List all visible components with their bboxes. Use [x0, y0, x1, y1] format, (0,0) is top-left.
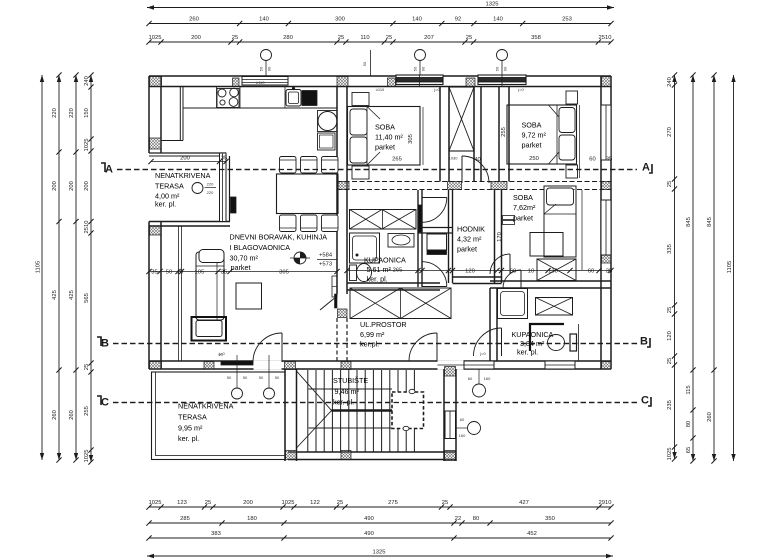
svg-text:120: 120 — [465, 269, 475, 275]
svg-text:90: 90 — [267, 66, 272, 71]
svg-text:300: 300 — [335, 17, 345, 23]
svg-text:j=0: j=0 — [218, 351, 225, 356]
svg-text:160: 160 — [459, 433, 466, 438]
svg-text:255: 255 — [501, 127, 507, 137]
svg-text:200: 200 — [191, 35, 201, 41]
svg-text:220: 220 — [207, 182, 214, 187]
svg-text:A: A — [105, 164, 113, 176]
svg-text:425: 425 — [52, 290, 58, 300]
svg-text:50: 50 — [259, 375, 264, 380]
right dims 845/260 — [713, 75, 715, 461]
bath2 shower — [498, 289, 528, 319]
left exterior wall lower — [148, 222, 150, 370]
right exterior wall — [600, 76, 602, 369]
ulprostor closet — [350, 288, 451, 319]
left dims 220/200/425/260 — [58, 75, 60, 460]
svg-text:90: 90 — [421, 66, 426, 71]
svg-text:25: 25 — [667, 181, 673, 187]
interior dimension line — [149, 271, 337, 273]
vent shaft — [449, 87, 474, 151]
svg-text:285: 285 — [180, 516, 190, 522]
bath2 toilet — [530, 324, 564, 351]
svg-text:parket: parket — [522, 141, 542, 150]
wall hodnik left — [448, 190, 450, 283]
terrace 9.95 box — [152, 372, 286, 460]
dining table — [277, 174, 339, 214]
living/ulp wall dashed part — [336, 318, 338, 361]
soba762 bed — [544, 186, 576, 257]
svg-text:35: 35 — [606, 269, 612, 275]
svg-text:C: C — [101, 397, 109, 409]
svg-text:845: 845 — [707, 217, 713, 227]
wall columns bottom — [204, 362, 214, 370]
bottom dims row3 — [149, 537, 611, 539]
svg-text:60: 60 — [468, 376, 473, 381]
svg-text:250: 250 — [529, 156, 539, 162]
sofa — [196, 252, 224, 320]
dashed wall under bedrooms — [337, 181, 611, 183]
svg-text:parket: parket — [231, 263, 251, 272]
svg-text:50: 50 — [259, 66, 264, 71]
svg-text:60: 60 — [588, 269, 594, 275]
svg-text:200: 200 — [52, 181, 58, 191]
bedroom1 nightstands — [352, 93, 369, 106]
elevation marker — [294, 252, 306, 264]
svg-text:253: 253 — [562, 17, 572, 23]
sink — [286, 90, 301, 107]
terrace 9.95 posts — [232, 388, 243, 399]
svg-text:KUPAONICA: KUPAONICA — [364, 256, 406, 265]
terrace 4.00 inner dim — [151, 161, 226, 163]
svg-text:TERASA: TERASA — [178, 413, 207, 422]
svg-text:11,40 m²: 11,40 m² — [375, 133, 403, 142]
svg-text:j=0: j=0 — [479, 351, 486, 356]
svg-text:220: 220 — [52, 108, 58, 118]
svg-text:j=0: j=0 — [433, 87, 440, 92]
svg-text:I BLAGOVAONICA: I BLAGOVAONICA — [230, 243, 291, 252]
svg-text:255: 255 — [84, 406, 90, 416]
svg-text:160: 160 — [484, 376, 491, 381]
wall niche/bedroom2 — [498, 87, 500, 182]
svg-text:25: 25 — [337, 500, 343, 506]
wall under hodnik — [453, 276, 502, 278]
svg-text:1025: 1025 — [282, 500, 295, 506]
svg-text:80: 80 — [686, 421, 692, 427]
svg-text:35: 35 — [221, 156, 227, 162]
window soba762 right — [601, 200, 611, 255]
svg-text:KUPAONICA: KUPAONICA — [512, 330, 554, 339]
svg-text:7,62m²: 7,62m² — [513, 203, 536, 212]
svg-text:120: 120 — [667, 331, 673, 341]
svg-text:10: 10 — [177, 270, 183, 276]
svg-text:TERASA: TERASA — [155, 182, 184, 191]
svg-text:DNEVNI BORAVAK, KUHINJA: DNEVNI BORAVAK, KUHINJA — [230, 233, 328, 242]
svg-text:240: 240 — [84, 76, 90, 86]
svg-text:50: 50 — [495, 66, 500, 71]
svg-text:565: 565 — [84, 293, 90, 303]
svg-text:9,46 m²: 9,46 m² — [335, 387, 360, 396]
svg-text:50: 50 — [243, 375, 248, 380]
wall shaft/niche — [473, 87, 475, 182]
svg-text:25: 25 — [205, 500, 211, 506]
vestibule top door — [422, 198, 447, 223]
living door leaf — [335, 294, 338, 308]
svg-text:ker. pl.: ker. pl. — [178, 434, 199, 443]
svg-text:1325: 1325 — [373, 550, 386, 556]
soba762 door — [490, 254, 510, 274]
svg-text:25: 25 — [232, 35, 238, 41]
svg-text:≥110: ≥110 — [376, 87, 385, 92]
svg-text:90: 90 — [503, 66, 508, 71]
svg-text:1025: 1025 — [84, 450, 90, 463]
vestibule cabinet — [427, 234, 447, 250]
svg-text:260: 260 — [52, 410, 58, 420]
top dimension line openings — [149, 41, 611, 43]
fridge — [318, 133, 336, 150]
svg-text:275: 275 — [388, 500, 398, 506]
svg-text:SOBA: SOBA — [375, 123, 395, 132]
svg-text:25: 25 — [386, 35, 392, 41]
svg-text:235: 235 — [667, 400, 673, 410]
svg-text:845: 845 — [686, 217, 692, 227]
svg-text:220: 220 — [69, 108, 75, 118]
svg-text:220: 220 — [207, 190, 214, 195]
svg-text:parket: parket — [457, 245, 477, 254]
left exterior wall upper — [148, 76, 150, 153]
plumbing shaft black — [419, 205, 422, 232]
svg-text:425: 425 — [69, 290, 75, 300]
window kitchen top — [242, 77, 288, 86]
svg-text:2510: 2510 — [599, 35, 612, 41]
wall bath2 left — [489, 288, 491, 361]
bath1 washbasin — [388, 234, 414, 248]
staircase mid bar — [309, 388, 393, 390]
svg-text:1030: 1030 — [449, 156, 459, 161]
svg-text:+573: +573 — [319, 262, 332, 268]
piano/cabinet — [192, 317, 227, 341]
svg-text:6,99 m²: 6,99 m² — [360, 330, 385, 339]
svg-text:ker. pl.: ker. pl. — [155, 200, 176, 209]
right dims detailed — [674, 75, 676, 459]
vestibule bottom door — [422, 262, 447, 287]
svg-text:305: 305 — [279, 270, 289, 276]
svg-text:ker. pl.: ker. pl. — [517, 348, 538, 357]
svg-text:25: 25 — [667, 358, 673, 364]
bedroom2 nightstands — [566, 91, 578, 104]
living wall radiator — [332, 276, 337, 297]
bath1 washer closet — [350, 210, 417, 230]
svg-text:122: 122 — [310, 500, 320, 506]
stove — [217, 89, 239, 108]
staircase walls — [284, 369, 286, 461]
section line A-A — [117, 169, 637, 171]
svg-text:1105: 1105 — [727, 261, 733, 273]
svg-text:200: 200 — [84, 181, 90, 191]
svg-text:140: 140 — [493, 17, 503, 23]
svg-text:427: 427 — [519, 500, 529, 506]
svg-text:170: 170 — [497, 232, 503, 242]
svg-text:UL.PROSTOR: UL.PROSTOR — [360, 320, 407, 329]
svg-text:383: 383 — [211, 531, 221, 537]
svg-text:35: 35 — [606, 157, 612, 163]
svg-text:ker. pl.: ker. pl. — [367, 275, 388, 284]
bath1 toilet — [350, 265, 357, 281]
svg-text:200: 200 — [180, 156, 190, 162]
svg-text:2510: 2510 — [84, 221, 90, 234]
wall living/bedroom1 — [336, 87, 338, 295]
bath1 shower — [350, 233, 380, 263]
svg-text:B: B — [101, 338, 109, 350]
top exterior wall — [149, 75, 611, 77]
bath2 door — [503, 270, 521, 288]
svg-text:207: 207 — [424, 35, 434, 41]
terrace 4.00 drain circle — [192, 183, 203, 194]
wall above bath2 — [490, 280, 611, 282]
terrace door dark leaf — [231, 197, 237, 213]
living/ulp wall hatch — [338, 309, 348, 318]
svg-text:30,70 m²: 30,70 m² — [230, 254, 259, 263]
section line C-C — [113, 402, 637, 404]
svg-text:NENATKRIVENA: NENATKRIVENA — [155, 171, 211, 180]
svg-text:25: 25 — [667, 307, 673, 313]
svg-text:1025: 1025 — [84, 139, 90, 152]
svg-text:9,72 m²: 9,72 m² — [522, 131, 547, 140]
kitchen counter top band — [183, 107, 337, 109]
svg-text:92: 92 — [455, 17, 461, 23]
wall bedroom1/shaft — [439, 87, 441, 182]
svg-text:25: 25 — [84, 364, 90, 370]
svg-text:240: 240 — [667, 77, 673, 87]
svg-text:260: 260 — [189, 17, 199, 23]
terrace 4.00 walls — [149, 152, 226, 154]
window bedroom1 top — [396, 75, 443, 85]
window bedroom2 right — [601, 105, 611, 160]
svg-text:150: 150 — [84, 108, 90, 118]
svg-text:1325: 1325 — [486, 2, 499, 8]
svg-text:STUBIŠTE: STUBIŠTE — [333, 376, 368, 385]
yard post 1 — [473, 384, 486, 397]
left dims detailed — [90, 75, 92, 462]
svg-text:1105: 1105 — [36, 261, 42, 273]
soba762 desk — [530, 233, 563, 257]
svg-text:452: 452 — [527, 531, 537, 537]
svg-text:≥110: ≥110 — [256, 80, 265, 85]
wall hodnik/soba762 — [494, 190, 496, 284]
section lines overdraw — [117, 169, 637, 171]
soba762 wardrobe — [537, 259, 576, 281]
svg-text:200: 200 — [69, 181, 75, 191]
svg-text:270: 270 — [667, 127, 673, 137]
wall columns left — [150, 138, 162, 149]
wall bath1 bottom / ulp top — [347, 282, 440, 284]
svg-text:1025: 1025 — [149, 500, 162, 506]
svg-text:280: 280 — [283, 35, 293, 41]
oven black — [302, 91, 317, 106]
bedroom2 bed — [507, 105, 577, 164]
window bedroom2 top — [478, 75, 526, 85]
window stair right wall — [445, 411, 456, 439]
svg-text:490: 490 — [364, 531, 374, 537]
svg-text:B: B — [640, 336, 648, 348]
elevator shaft — [392, 392, 424, 429]
bedroom2 door — [462, 156, 489, 183]
right dims 845/115/80/65 — [692, 75, 694, 461]
svg-text:350: 350 — [545, 516, 555, 522]
svg-text:5,61 m²: 5,61 m² — [367, 265, 392, 274]
coffee table — [236, 283, 262, 309]
svg-text:9,95 m²: 9,95 m² — [178, 424, 203, 433]
wall bath1 right — [417, 190, 419, 287]
window bath2 bottom — [545, 361, 575, 369]
chairs bottom — [280, 215, 297, 232]
svg-text:115: 115 — [686, 385, 692, 394]
svg-text:335: 335 — [667, 244, 673, 254]
svg-text:35: 35 — [221, 270, 227, 276]
svg-text:358: 358 — [531, 35, 541, 41]
svg-text:parket: parket — [513, 214, 533, 223]
svg-text:25: 25 — [466, 35, 472, 41]
svg-text:60: 60 — [589, 157, 595, 163]
left dims second 220/200/425/260 — [75, 75, 77, 460]
svg-text:+584: +584 — [319, 253, 333, 259]
svg-text:65: 65 — [686, 447, 692, 453]
top dimension line axes 260/140/300/140/92/140/253 — [149, 23, 611, 25]
section line B-B — [113, 343, 637, 345]
svg-text:105: 105 — [195, 270, 205, 276]
stack marker line — [370, 50, 372, 76]
svg-text:260: 260 — [69, 410, 75, 420]
svg-text:60: 60 — [460, 417, 465, 422]
svg-text:2910: 2910 — [599, 500, 612, 506]
svg-text:490: 490 — [364, 516, 374, 522]
bottom dim total 1325 — [147, 555, 613, 557]
svg-text:200: 200 — [243, 500, 253, 506]
living room ledge line — [178, 226, 180, 361]
svg-text:parket: parket — [375, 143, 395, 152]
staircase treads — [307, 370, 309, 452]
terrace 4.00 door band — [220, 153, 227, 222]
svg-text:SOBA: SOBA — [522, 121, 542, 130]
svg-text:265: 265 — [393, 268, 403, 274]
bedroom1 bed — [348, 107, 421, 166]
svg-text:123: 123 — [177, 500, 187, 506]
svg-text:j=0: j=0 — [517, 87, 524, 92]
top dimension line overall 1325 — [147, 7, 614, 9]
terrace door arc — [253, 333, 282, 362]
svg-text:140: 140 — [259, 17, 269, 23]
svg-text:C: C — [641, 395, 649, 407]
roof drain marker 1 — [261, 50, 272, 61]
soba762 radiator — [503, 216, 515, 220]
svg-text:265: 265 — [392, 157, 402, 163]
svg-text:10: 10 — [528, 269, 534, 275]
bottom dims row2 — [149, 522, 611, 524]
svg-text:50: 50 — [227, 375, 232, 380]
bath2 left door — [474, 328, 502, 356]
staircase diagonals — [297, 371, 332, 448]
bottom dims row1 — [149, 506, 611, 508]
svg-text:40: 40 — [474, 157, 480, 163]
bath2 washer — [536, 298, 573, 316]
svg-text:50: 50 — [275, 375, 280, 380]
svg-text:1025: 1025 — [667, 448, 673, 461]
svg-text:305: 305 — [408, 134, 414, 144]
svg-text:180: 180 — [247, 516, 257, 522]
svg-text:HODNIK: HODNIK — [457, 225, 485, 234]
wall columns top — [150, 77, 162, 87]
window entrance bottom — [464, 361, 494, 369]
bottom exterior wall — [149, 360, 611, 362]
right dim total 1105 — [733, 75, 735, 461]
svg-text:80: 80 — [473, 516, 479, 522]
svg-text:35: 35 — [151, 270, 157, 276]
vestibule cross band — [418, 227, 453, 229]
boiler circle — [318, 112, 337, 131]
svg-text:SOBA: SOBA — [513, 193, 533, 202]
terrace door sill — [221, 361, 253, 365]
svg-text:50: 50 — [166, 270, 172, 276]
svg-text:50: 50 — [362, 61, 367, 66]
svg-text:140: 140 — [412, 17, 422, 23]
svg-text:25: 25 — [338, 35, 344, 41]
svg-text:4,32 m²: 4,32 m² — [457, 235, 482, 244]
svg-text:A: A — [642, 162, 650, 174]
svg-text:1025: 1025 — [149, 35, 162, 41]
svg-text:22: 22 — [455, 516, 461, 522]
left dimension total 1105 — [41, 75, 43, 460]
yard post 2 — [468, 422, 481, 435]
svg-text:260: 260 — [707, 412, 713, 422]
svg-text:25: 25 — [442, 500, 448, 506]
svg-text:50: 50 — [413, 66, 418, 71]
entry door — [409, 333, 437, 361]
chairs top — [280, 157, 297, 174]
svg-text:110: 110 — [360, 35, 369, 41]
